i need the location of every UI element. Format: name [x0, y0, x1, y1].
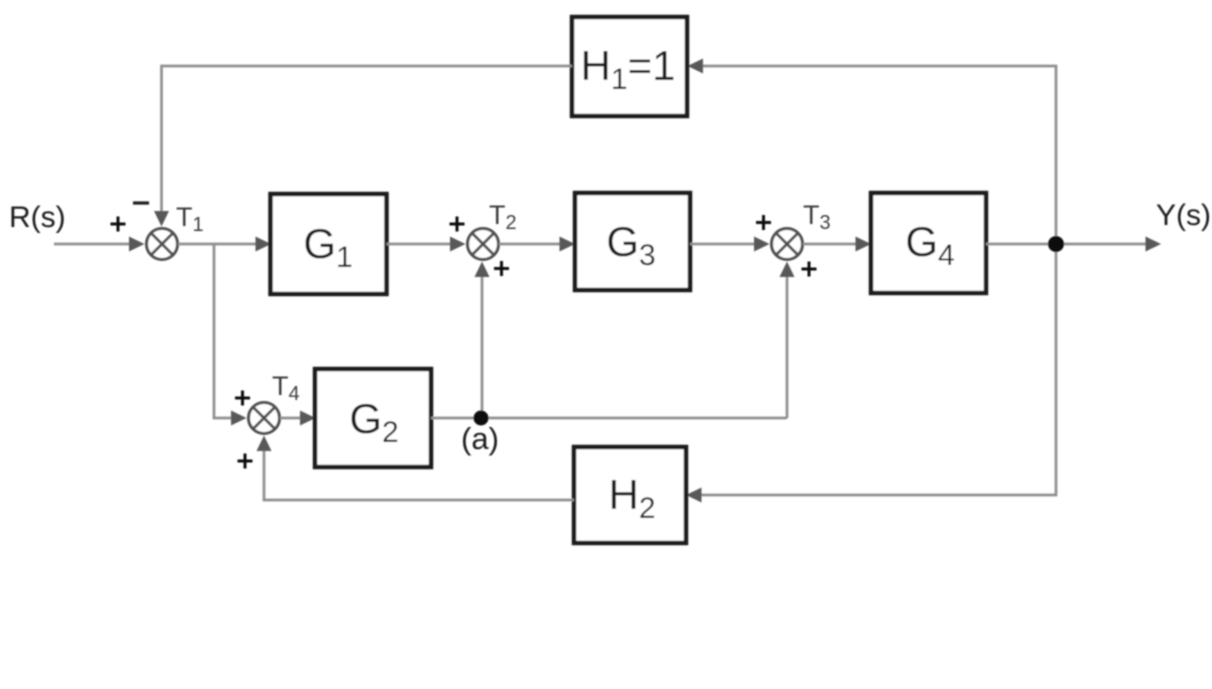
- block G4: [871, 193, 986, 293]
- summing junction T4: [249, 403, 280, 434]
- wire: G2 output right to below T3: [431, 417, 787, 420]
- wire: G1 to T2: [387, 237, 466, 252]
- wire: T4 to G2: [280, 411, 316, 426]
- wire: G3 to T3: [690, 237, 770, 252]
- svg-text:R(s): R(s): [9, 201, 66, 234]
- wire: T3 to G4: [803, 237, 871, 252]
- block H2: [574, 447, 686, 543]
- wire: G4 to Y(s) output: [986, 237, 1161, 252]
- wire: up to T3 bottom input: [780, 262, 795, 419]
- plus sign at T3 bottom input: [802, 262, 817, 277]
- block H1: [572, 17, 687, 116]
- wire: T2 to G3: [499, 237, 575, 252]
- summing junction T3: [772, 229, 803, 260]
- summing junction T1: [147, 229, 178, 260]
- minus sign at T1 top input: [133, 201, 149, 204]
- wire: node (a) up to T2 bottom input: [475, 262, 490, 419]
- summing junction T2: [468, 229, 499, 260]
- plus sign at T2 left input: [450, 217, 465, 232]
- wire: H1 output left and down to T1 top input: [154, 66, 572, 227]
- svg-text:T1: T1: [176, 202, 204, 236]
- plus sign at T3 left input: [756, 215, 771, 230]
- wire: R(s) input to summing junction T1: [54, 237, 145, 252]
- svg-text:H1=1: H1=1: [581, 42, 676, 96]
- svg-text:T3: T3: [803, 200, 831, 234]
- block G1: [271, 194, 387, 294]
- block G3: [575, 193, 690, 290]
- plus sign at T2 bottom input: [494, 261, 509, 276]
- plus sign at T1 left input: [111, 217, 126, 232]
- svg-text:T4: T4: [272, 371, 300, 405]
- svg-text:Y(s): Y(s): [1156, 199, 1211, 232]
- wire: output node down and left to H2 input: [686, 244, 1056, 503]
- wire: output node up and left to H1 input: [688, 59, 1057, 245]
- block G2: [315, 369, 431, 467]
- svg-text:T2: T2: [489, 200, 517, 234]
- wire: H2 output left and up to T4 bottom input: [257, 436, 575, 501]
- wire: branch from T1 output down to T4: [214, 244, 247, 426]
- node (a) takeoff dot: [474, 411, 489, 426]
- svg-text:(a): (a): [461, 421, 499, 456]
- plus sign at T4 left input: [235, 391, 250, 406]
- plus sign at T4 bottom input: [238, 454, 253, 469]
- wire: T1 to G1: [178, 237, 271, 252]
- output takeoff node: [1048, 236, 1064, 252]
